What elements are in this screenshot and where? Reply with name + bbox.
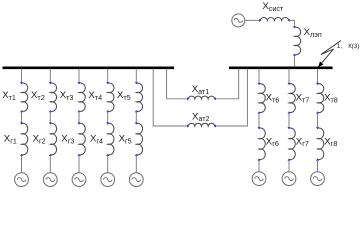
wire: right branch 7 stub from bus <box>288 69 290 84</box>
wire: left branch 4 between coils <box>107 112 109 124</box>
left busbar <box>3 67 175 70</box>
right busbar <box>229 67 333 70</box>
wire: left branch 5 stub from bus <box>135 69 137 84</box>
wire: right branch 6 to generator <box>258 160 260 172</box>
line reactance coil Xлэп <box>293 26 301 56</box>
reactor coil Xг5 <box>135 122 143 156</box>
reactor coil Xг4 <box>106 122 114 156</box>
wire: left branch 5 between coils <box>135 112 137 124</box>
autotransformer coil Xат1 <box>187 96 216 100</box>
wire: right branch 8 stub from bus <box>317 69 319 84</box>
wire: autotransformer 2 loop (left riser + horizontals + right riser) <box>153 69 247 127</box>
wire: left branch 2 between coils <box>49 112 51 124</box>
wire: right branch 7 between coils <box>288 113 290 128</box>
wire: left branch 4 stub from bus <box>107 69 109 84</box>
generator G3 <box>72 173 86 187</box>
generator G1 <box>15 173 29 187</box>
reactor coil Xт8 <box>316 83 324 114</box>
wire: system source to Xсист <box>245 19 260 21</box>
wire: left branch 2 stub from bus <box>49 69 51 84</box>
reactor coil Xт1 <box>20 82 28 112</box>
wire: right branch 8 to generator <box>317 160 319 172</box>
reactor coil Xг6 <box>258 127 266 161</box>
wire: left branch 3 stub from bus <box>78 69 80 84</box>
generator G5 <box>129 173 143 187</box>
wire: left branch 2 to generator <box>49 155 51 173</box>
wire: right branch 7 to generator <box>288 160 290 172</box>
system source generator symbol <box>232 14 245 27</box>
wire: left branch 3 to generator <box>78 155 80 173</box>
reactor coil Xг8 <box>316 127 324 161</box>
reactor coil Xг2 <box>49 122 57 156</box>
svg-text:К(3): К(3) <box>348 43 359 50</box>
fault lightning arrow to bus (node K) <box>319 41 341 67</box>
reactor coil Xг1 <box>20 122 28 156</box>
reactor coil Xт2 <box>49 82 57 112</box>
generator G7 <box>282 172 296 186</box>
generator G8 <box>311 172 325 186</box>
wire: Xлэп down to right busbar <box>293 55 295 67</box>
reactor coil Xт3 <box>78 82 86 112</box>
reactor coil Xг7 <box>288 127 296 161</box>
wire: left branch 3 between coils <box>78 112 80 124</box>
wire: left branch 1 between coils <box>21 112 23 124</box>
reactor coil Xт4 <box>106 82 114 112</box>
reactor coil Xт6 <box>258 83 266 114</box>
autotransformer coil Xат2 <box>187 123 216 127</box>
wire: autotransformer 1 loop (left riser + horizontals + right riser) <box>167 69 239 99</box>
wire: Xсист to line corner <box>289 20 294 27</box>
svg-text:1,: 1, <box>337 43 342 50</box>
reactor coil Xт7 <box>288 83 296 114</box>
generator G2 <box>43 173 57 187</box>
generator G4 <box>101 173 115 187</box>
wire: left branch 5 to generator <box>135 155 137 173</box>
reactor coil Xг3 <box>78 122 86 156</box>
wire: left branch 1 stub from bus <box>21 69 23 84</box>
reactor coil Xт5 <box>135 82 143 112</box>
wire: left branch 4 to generator <box>107 155 109 173</box>
generator G6 <box>252 172 266 186</box>
wire: left branch 1 to generator <box>21 155 23 173</box>
wire: right branch 6 between coils <box>258 113 260 128</box>
system reactance coil Xсист <box>259 18 290 22</box>
wire: right branch 6 stub from bus <box>258 69 260 84</box>
wire: right branch 8 between coils <box>317 113 319 128</box>
